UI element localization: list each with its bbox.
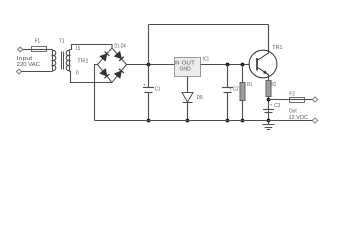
bridge diode D4 bbox=[115, 69, 124, 78]
svg-text:D1-D4: D1-D4 bbox=[115, 43, 126, 49]
svg-text:15: 15 bbox=[75, 46, 80, 52]
wire F1 to T1 primary bbox=[47, 49, 53, 51]
svg-text:F2: F2 bbox=[289, 91, 294, 97]
junction C1 ground bbox=[147, 119, 151, 123]
junction R1 ground bbox=[241, 119, 245, 123]
svg-text:GND: GND bbox=[180, 66, 191, 72]
svg-text:+: + bbox=[229, 87, 232, 92]
wire ground rail bbox=[95, 120, 313, 122]
bridge diode D2 bbox=[115, 52, 124, 61]
wire bridge plus to IC1 IN bbox=[127, 64, 175, 66]
fuse F2 bbox=[290, 98, 305, 103]
bridge rectifier diamond outline bbox=[98, 48, 127, 83]
svg-text:+: + bbox=[270, 103, 273, 108]
wire IC1 OUT to base bbox=[201, 64, 250, 66]
junction node C2 top bbox=[226, 63, 230, 67]
wire secondary 15 to bridge top bbox=[70, 45, 113, 50]
svg-text:R2: R2 bbox=[271, 82, 276, 88]
svg-text:C3: C3 bbox=[274, 103, 280, 109]
svg-text:F1: F1 bbox=[35, 39, 40, 45]
resistor R2 bbox=[266, 81, 271, 121]
wire top rail down to TR1 collector bbox=[268, 25, 270, 54]
junction C2 ground bbox=[226, 119, 230, 123]
svg-text:Out: Out bbox=[289, 109, 297, 115]
wire F2 to output terminal bbox=[305, 99, 313, 101]
capacitor C2 bbox=[222, 65, 233, 121]
bridge diode D3 bbox=[100, 69, 109, 78]
wire J2 to primary bbox=[21, 71, 52, 73]
input terminal J2 bbox=[16, 69, 21, 74]
capacitor C3 bbox=[263, 110, 274, 113]
wire up to top rail bbox=[148, 25, 150, 65]
svg-text:T1: T1 bbox=[59, 39, 64, 45]
diode D5 bbox=[182, 93, 193, 121]
wire IC1 GND down bbox=[187, 77, 189, 93]
fuse F1 bbox=[32, 47, 47, 52]
junction node output bbox=[267, 98, 271, 102]
junction node unregulated bbox=[147, 63, 151, 67]
svg-text:0: 0 bbox=[76, 71, 79, 77]
output terminal J3 bbox=[312, 97, 318, 102]
svg-text:IC1: IC1 bbox=[203, 56, 209, 62]
junction C3 ground bbox=[267, 119, 271, 123]
junction node R1 top bbox=[241, 63, 245, 67]
svg-text:TR1: TR1 bbox=[77, 58, 88, 64]
wire top rail bbox=[149, 24, 269, 26]
transformer core bbox=[62, 52, 64, 70]
transistor TR1 bbox=[249, 50, 277, 78]
ground symbol bbox=[263, 121, 275, 130]
resistor R1 bbox=[240, 65, 245, 121]
svg-text:+: + bbox=[143, 82, 146, 87]
svg-text:TR1: TR1 bbox=[272, 45, 282, 51]
wire J1 to F1 bbox=[23, 49, 32, 51]
junction D5 ground bbox=[186, 119, 190, 123]
wire emitter to R2 bbox=[268, 75, 270, 81]
svg-text:220 VAC: 220 VAC bbox=[17, 62, 40, 68]
bridge diode D1 bbox=[100, 52, 109, 61]
svg-text:C1: C1 bbox=[155, 86, 161, 92]
svg-text:R1: R1 bbox=[247, 82, 252, 88]
capacitor C1 bbox=[143, 65, 154, 121]
input terminal J1 bbox=[18, 47, 23, 52]
transformer TR1 secondary winding bbox=[66, 50, 69, 72]
output terminal J4 bbox=[312, 118, 318, 123]
svg-text:D5: D5 bbox=[197, 95, 203, 101]
transformer TR1 primary winding bbox=[53, 50, 56, 72]
svg-text:C2: C2 bbox=[233, 87, 239, 93]
regulator IC1 box bbox=[175, 58, 201, 77]
wire bridge minus down to ground rail bbox=[95, 65, 98, 121]
wire secondary 0 to bridge bottom bbox=[70, 72, 113, 83]
wire output to F2 bbox=[269, 99, 290, 101]
